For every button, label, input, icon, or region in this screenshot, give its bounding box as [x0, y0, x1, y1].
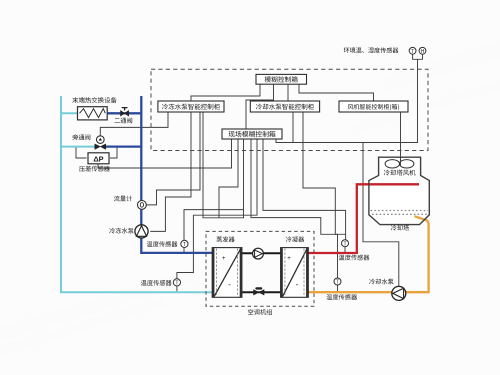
svg-text:T: T: [336, 280, 339, 286]
wire: dp sensor right tap to bypass pipe: [110, 148, 117, 159]
pipe: refrigerant top line evaporator-condenser: [241, 252, 282, 254]
label: temperature sensor TL2: [141, 280, 172, 286]
svg-text:+: +: [287, 255, 291, 262]
pipe: chilled water supply (blue) riser and bottom run: [141, 96, 212, 253]
label: chilled water pump smart cabinet: [162, 104, 220, 110]
svg-text:T: T: [183, 242, 186, 248]
label: evaporator: [217, 236, 235, 242]
wire: differential-pressure sensor to on-site fuzzy box: [98, 139, 232, 168]
box: cooling water pump smart cabinet: [250, 101, 319, 112]
wire: fan cabinet to tower fan: [400, 112, 402, 166]
label: two-way valve: [115, 118, 133, 124]
condenser: [281, 248, 309, 298]
wire: fuzzy box to on-site fuzzy box: [246, 84, 274, 129]
label: cooling water pump smart cabinet: [256, 104, 314, 110]
svg-text:+: +: [222, 255, 226, 262]
label: flow meter: [114, 196, 132, 202]
pipe: chilled water return (cyan) riser and bottom run: [61, 96, 213, 292]
wire: sensor TL2 stub to cyan pipe: [176, 286, 178, 291]
wire: sensor TR2 stub to orange pipe: [337, 285, 339, 291]
symbols group: [78, 47, 430, 306]
compressor: [253, 248, 264, 259]
svg-text:T: T: [411, 49, 414, 55]
pipes group: [60, 96, 429, 292]
heat exchanger (terminal): [78, 107, 108, 120]
wire: cooling-pump cabinet second stub: [292, 112, 294, 143]
pipe: cyan bypass branch: [60, 146, 96, 148]
label: condenser: [286, 236, 304, 242]
cooling tower outline: [369, 157, 429, 224]
wires group: [76, 54, 423, 291]
svg-text:H: H: [421, 49, 425, 55]
box: on-site fuzzy control box: [222, 129, 282, 139]
pipe: cyan to heat exchanger: [60, 112, 78, 114]
control system dashed enclosure: [151, 69, 428, 150]
ambient humidity sensor H: [419, 47, 426, 55]
temperature sensor TL2: [173, 279, 180, 287]
wire: horizontal bus tee to cooling water pump: [363, 143, 399, 287]
cooling water pump: [392, 286, 406, 300]
wire: temperature sensor TL2 to on-site fuzzy box: [177, 139, 257, 279]
cooling tower fan: [385, 157, 414, 168]
chiller unit dashed enclosure: [206, 231, 314, 306]
label: cooling water pump: [369, 279, 393, 285]
cooling tower body fill (under layer): [369, 157, 429, 224]
svg-text:T: T: [175, 281, 178, 287]
wire: on-site fuzzy box branch joining lower U-run: [219, 139, 238, 218]
wire: sensor TL1 stub to blue pipe: [183, 248, 185, 253]
wire: on-site fuzzy box to control bus: [276, 139, 338, 143]
chilled water pump: [135, 225, 148, 238]
wire: ambient T/H sensors drop line joining control bus: [338, 54, 423, 142]
label: fuzzy control box: [265, 76, 298, 82]
differential pressure sensor box: [88, 153, 109, 164]
label: terminal heat exchanger: [72, 97, 116, 103]
bypass valve with actuator: [95, 136, 106, 150]
box: chilled water pump smart cabinet: [158, 101, 224, 112]
label: temperature sensor TR1: [339, 255, 370, 261]
pipe: cooling water supply (red) to tower: [308, 184, 420, 253]
svg-text:-: -: [228, 280, 231, 289]
label: air conditioning unit: [248, 309, 272, 315]
wire: bypass valve actuator to chilled-pump cabinet: [100, 112, 168, 136]
wire: fuzzy box to fan cabinet: [299, 84, 374, 101]
label: fan smart cabinet: [348, 104, 399, 110]
temperature sensor TL1: [181, 240, 188, 248]
pipe: blue heat exchanger to riser: [107, 112, 141, 114]
wire: flow meter to chilled-pump cabinet: [146, 112, 200, 205]
wire: cooling-pump cabinet staircase joining TR1 drop: [303, 112, 346, 234]
box: fuzzy control box: [256, 74, 307, 84]
svg-text:T: T: [343, 241, 346, 247]
label: temperature sensor TL1: [147, 241, 178, 247]
pipe: refrigerant bottom line evaporator-condenser: [241, 291, 282, 293]
label: ambient temperature humidity sensor: [344, 47, 399, 53]
labels group: [72, 47, 415, 315]
wire: sensor TR1 stub to red pipe: [344, 246, 346, 252]
label: on-site fuzzy control box: [229, 131, 276, 137]
flow meter: [138, 201, 147, 210]
label: temperature sensor TR2: [326, 294, 357, 300]
svg-text:ΔP: ΔP: [93, 154, 103, 163]
wire: dp sensor left tap to bypass pipe: [76, 148, 87, 159]
wire: on-site fuzzy box to temperature sensor TR2: [251, 139, 338, 278]
label: chilled water pump: [109, 228, 133, 234]
pipe: cooling water return (orange) tower to condenser: [308, 216, 429, 292]
temperature sensor TR2: [334, 278, 341, 286]
wire: chilled water pump to chilled-pump cabinet: [150, 112, 191, 231]
evaporator: [212, 248, 242, 298]
svg-text:-: -: [296, 280, 299, 289]
label: differential pressure sensor: [79, 166, 110, 172]
temperature sensor TR1: [342, 240, 349, 248]
two-way valve: [121, 108, 129, 117]
ambient temperature sensor T: [409, 47, 416, 55]
wire: chilled-pump cabinet lower U-run to sensor bus: [203, 112, 244, 218]
wire: on-site fuzzy box to temperature sensor TR1: [263, 139, 346, 240]
expansion valve: [254, 287, 265, 295]
wire: temperature sensor TL1 to on-site fuzzy box: [184, 139, 244, 240]
box: fan smart cabinet: [339, 101, 408, 112]
label: cooling tower fan: [384, 170, 416, 176]
wire: fuzzy box to cooling-pump cabinet: [287, 84, 289, 101]
wire: fuzzy box to chilled-pump cabinet: [191, 84, 260, 101]
label: cooling tower: [391, 225, 409, 231]
pipe: blue bypass branch: [105, 145, 141, 147]
label: bypass valve: [72, 134, 90, 140]
